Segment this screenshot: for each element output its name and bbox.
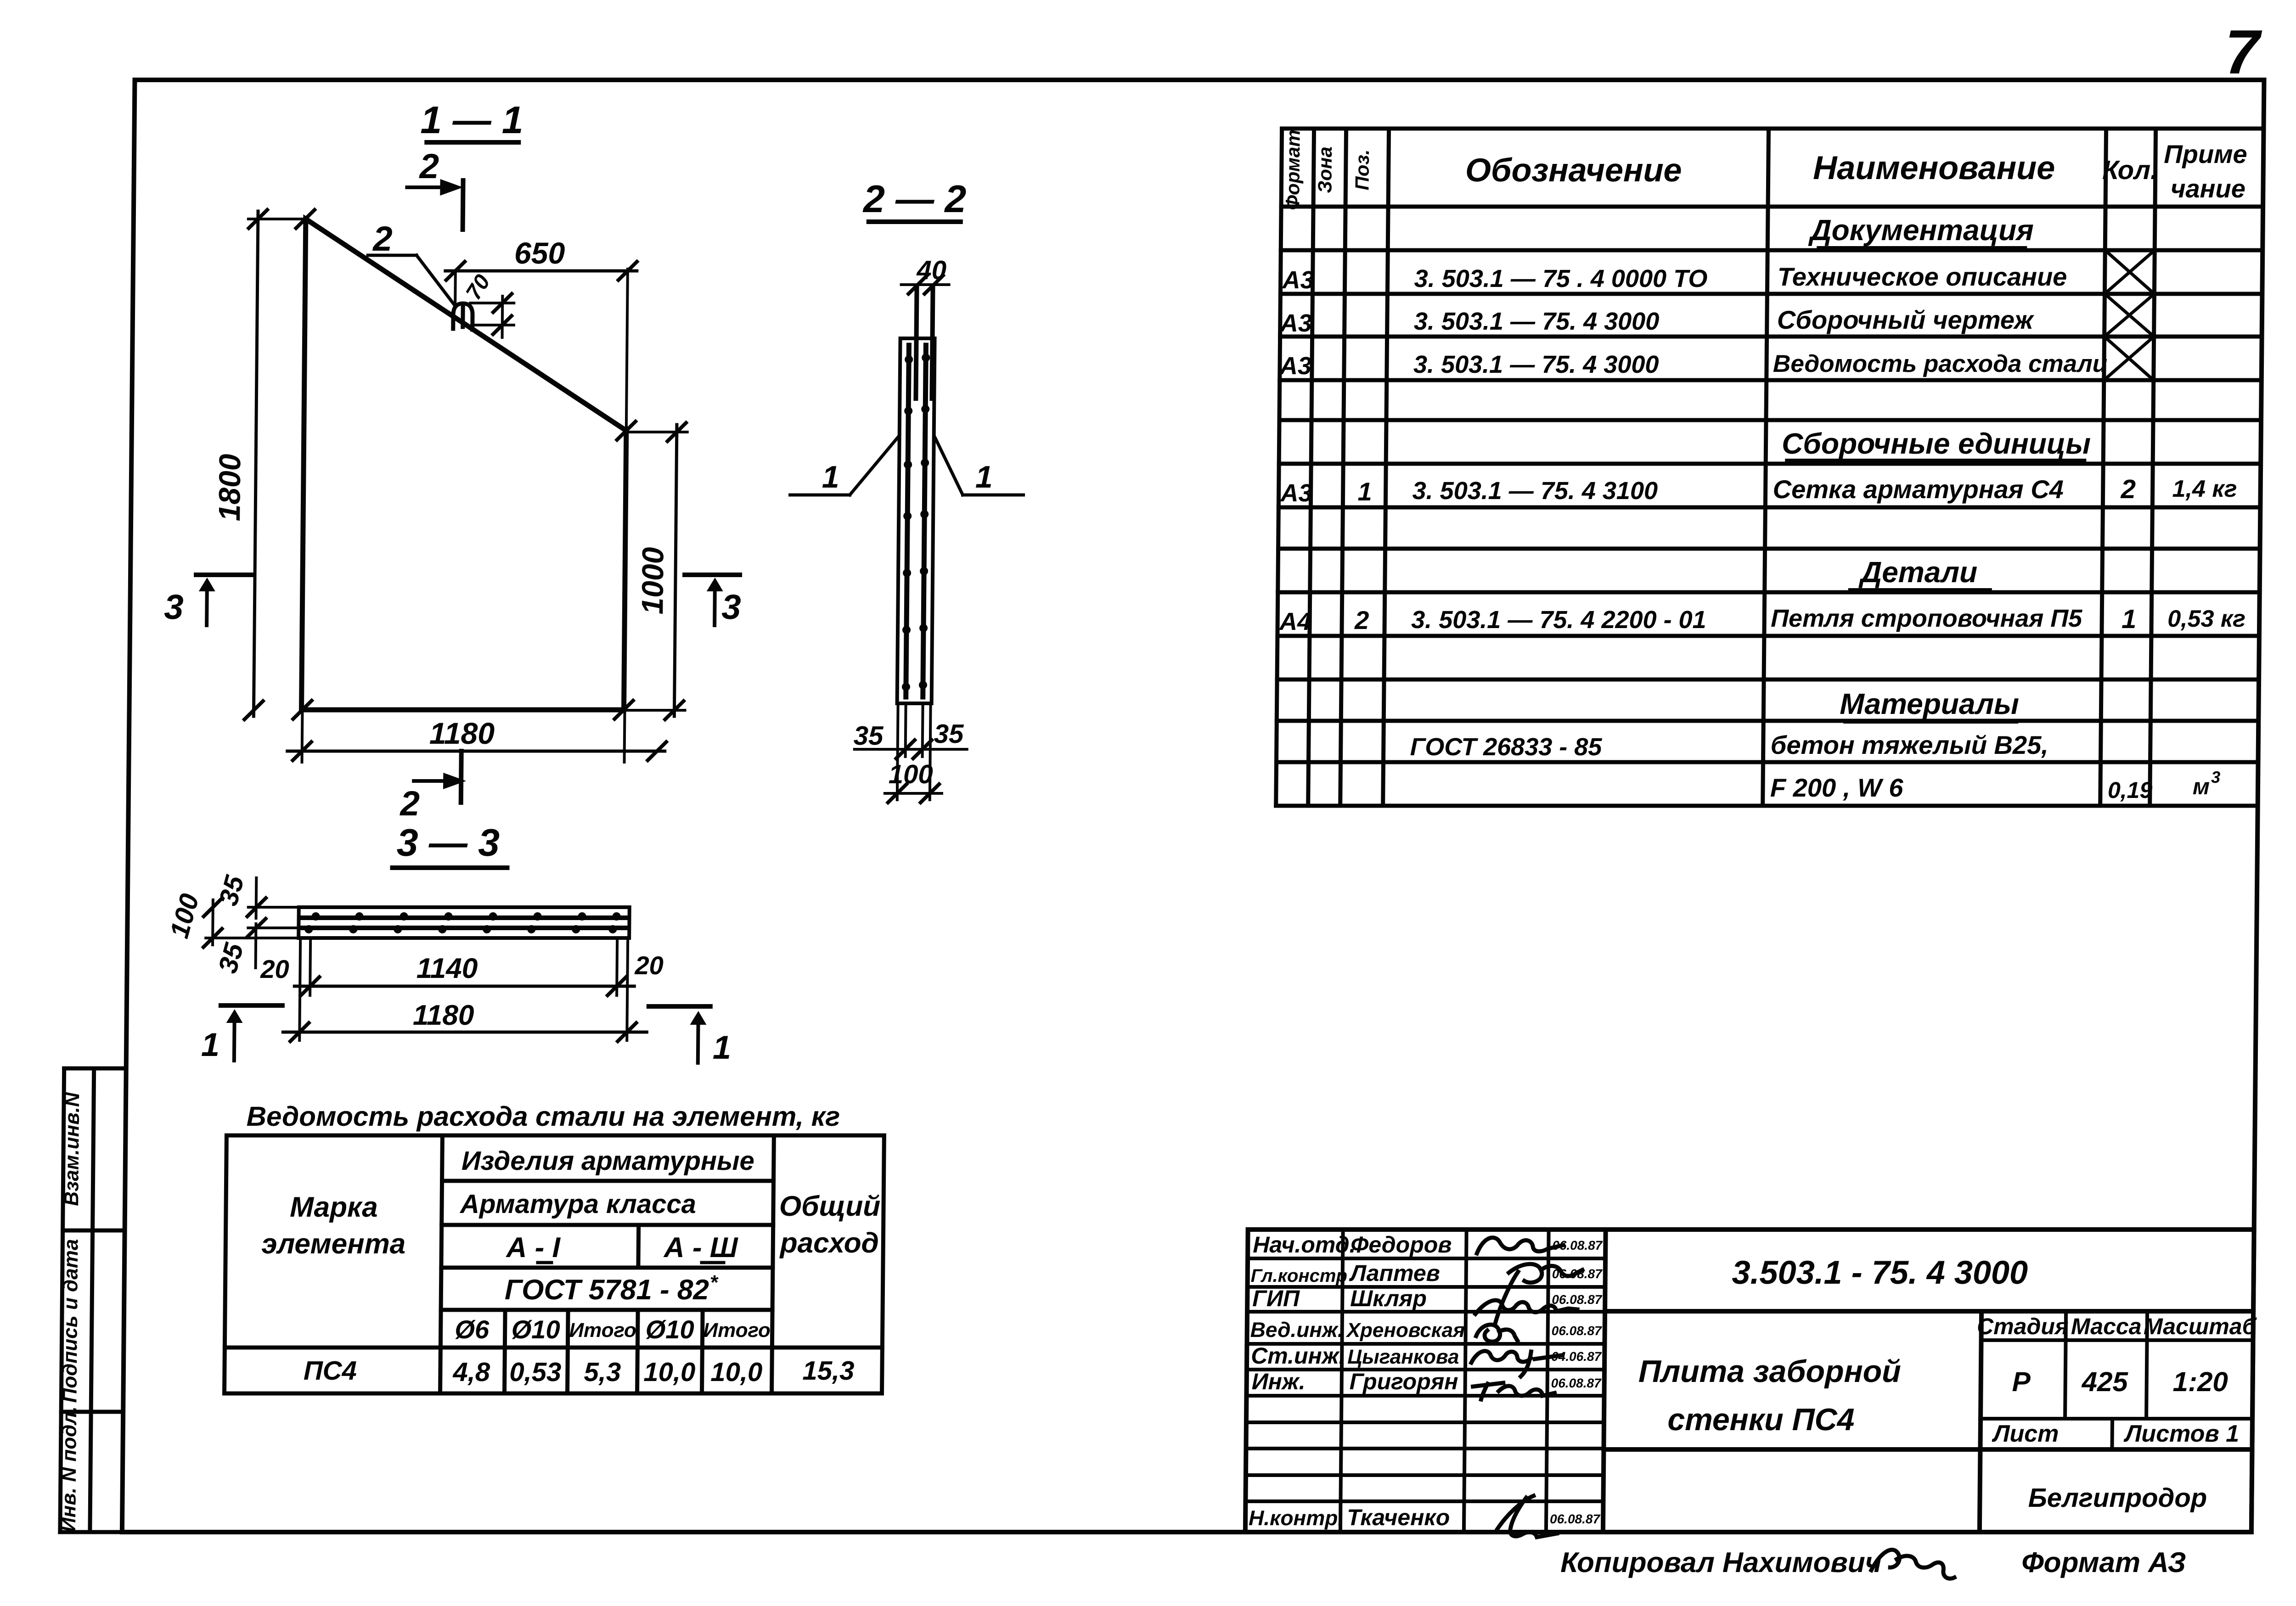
svg-text:1: 1: [822, 460, 839, 494]
svg-text:1,4 кг: 1,4 кг: [2172, 476, 2237, 502]
cross wire dots (3-3): [304, 912, 620, 933]
svg-text:1180: 1180: [413, 1000, 474, 1031]
svg-text:2: 2: [418, 147, 439, 186]
svg-text:1800: 1800: [212, 454, 247, 521]
svg-text:1140: 1140: [416, 953, 478, 984]
svg-text:1180: 1180: [429, 716, 495, 750]
svg-text:Петля строповочная П5: Петля строповочная П5: [1771, 605, 2082, 632]
svg-text:Документация: Документация: [1808, 213, 2034, 247]
corner ticks on trapezoid: [292, 210, 637, 719]
svg-text:Плита заборной: Плита заборной: [1638, 1354, 1901, 1389]
signature Ткаченко: [1497, 1496, 1558, 1537]
signature Шкляр: [1475, 1300, 1577, 1314]
svg-text:Лаптев: Лаптев: [1349, 1260, 1441, 1286]
svg-text:2: 2: [372, 219, 393, 258]
svg-text:Ткаченко: Ткаченко: [1347, 1505, 1450, 1530]
svg-text:Материалы: Материалы: [1840, 687, 2019, 720]
svg-text:Инв. N подл.: Инв. N подл.: [57, 1406, 81, 1532]
svg-text:ГИП: ГИП: [1252, 1286, 1300, 1311]
svg-text:м: м: [2193, 774, 2210, 799]
svg-text:Общий: Общий: [779, 1190, 881, 1222]
svg-text:5,3: 5,3: [584, 1357, 621, 1387]
svg-text:А3: А3: [1279, 479, 1312, 507]
svg-text:А3: А3: [1279, 352, 1312, 380]
svg-text:Сборочный чертеж: Сборочный чертеж: [1777, 305, 2035, 334]
svg-text:Масштаб: Масштаб: [2144, 1314, 2257, 1339]
steel table grid: [225, 1135, 884, 1393]
svg-text:Ведомость расхода стали на: Ведомость расхода стали на элемент, кг: [246, 1101, 840, 1132]
svg-text:бетон тяжелый В25,: бетон тяжелый В25,: [1771, 730, 2049, 759]
svg-text:Обозначение: Обозначение: [1465, 152, 1682, 189]
svg-text:06.08.87: 06.08.87: [1552, 1324, 1603, 1338]
svg-text:Подпись и дата: Подпись и дата: [58, 1239, 82, 1403]
svg-text:2 — 2: 2 — 2: [862, 177, 967, 220]
svg-text:35: 35: [853, 721, 884, 751]
svg-text:06.08.87: 06.08.87: [1550, 1512, 1601, 1526]
svg-text:06.08.87: 06.08.87: [1552, 1292, 1603, 1307]
loop wires protruding at top: [916, 286, 917, 399]
svg-text:3. 503.1 — 75. 4 3000: 3. 503.1 — 75. 4 3000: [1413, 351, 1659, 378]
svg-text:10,0: 10,0: [643, 1357, 695, 1387]
svg-text:Формат АЗ: Формат АЗ: [2021, 1547, 2186, 1578]
rebar mesh bars (2-2): [906, 345, 909, 697]
signature Лаптев: [1496, 1264, 1582, 1322]
svg-text:Сборочные единицы: Сборочные единицы: [1782, 427, 2091, 460]
signature Цыганкова: [1471, 1351, 1561, 1376]
svg-text:Марка: Марка: [290, 1191, 378, 1223]
svg-text:7: 7: [2224, 17, 2262, 87]
svg-text:ПС4: ПС4: [304, 1356, 357, 1386]
svg-text:Детали: Детали: [1858, 556, 1978, 589]
svg-text:100: 100: [889, 759, 933, 789]
svg-text:3.503.1 - 75. 4 3000: 3.503.1 - 75. 4 3000: [1732, 1254, 2028, 1291]
svg-text:3: 3: [164, 588, 184, 627]
svg-text:А3: А3: [1279, 309, 1312, 337]
svg-text:Ø10: Ø10: [646, 1315, 694, 1344]
svg-text:Стадия: Стадия: [1977, 1314, 2069, 1339]
specification table grid: [1276, 129, 2264, 806]
svg-text:Взам.инв.N: Взам.инв.N: [60, 1092, 84, 1206]
svg-text:Лист: Лист: [1991, 1421, 2059, 1447]
svg-text:А4: А4: [1278, 608, 1311, 635]
svg-text:Ведомость расхода стали: Ведомость расхода стали: [1773, 350, 2108, 377]
svg-text:04.06.87: 04.06.87: [1551, 1349, 1602, 1364]
svg-text:Нач.отд.: Нач.отд.: [1253, 1232, 1356, 1258]
svg-text:Приме: Приме: [2164, 140, 2247, 168]
svg-text:15,3: 15,3: [802, 1356, 854, 1386]
svg-text:Наименование: Наименование: [1813, 150, 2055, 186]
svg-text:2: 2: [399, 784, 420, 823]
svg-text:Итого: Итого: [569, 1319, 636, 1342]
svg-text:Копировал Нахимович: Копировал Нахимович: [1560, 1547, 1882, 1578]
svg-text:2: 2: [2120, 474, 2136, 504]
svg-text:20: 20: [260, 955, 289, 983]
svg-text:расход: расход: [779, 1227, 879, 1259]
svg-text:Цыганкова: Цыганкова: [1347, 1346, 1459, 1368]
svg-text:Итого: Итого: [703, 1319, 771, 1342]
svg-text:Масса: Масса: [2071, 1314, 2142, 1339]
svg-text:Шкляр: Шкляр: [1350, 1286, 1427, 1311]
cross wire dots (2-2): [902, 354, 930, 691]
svg-text:1: 1: [975, 460, 993, 494]
svg-text:ГОСТ 5781 - 82: ГОСТ 5781 - 82: [505, 1274, 709, 1306]
svg-text:3. 503.1 — 75. 4 3100: 3. 503.1 — 75. 4 3100: [1412, 477, 1658, 505]
rebar mesh bars (3-3): [303, 915, 627, 920]
svg-text:1:20: 1:20: [2172, 1366, 2228, 1397]
svg-text:стенки ПС4: стенки ПС4: [1667, 1402, 1855, 1437]
svg-text:3. 503.1 — 75. 4 3000: 3. 503.1 — 75. 4 3000: [1414, 308, 1660, 335]
svg-text:1: 1: [2122, 604, 2137, 634]
svg-text:35: 35: [934, 719, 964, 749]
signature Хреновская: [1476, 1325, 1517, 1342]
svg-text:Сетка арматурная С4: Сетка арматурная С4: [1773, 475, 2064, 504]
svg-text:Инж.: Инж.: [1251, 1369, 1305, 1394]
svg-text:Хреновская: Хреновская: [1345, 1319, 1465, 1342]
svg-text:3 — 3: 3 — 3: [397, 821, 500, 864]
svg-text:Кол.: Кол.: [2102, 155, 2158, 185]
svg-text:Н.контр.: Н.контр.: [1249, 1506, 1344, 1530]
svg-text:1: 1: [1357, 477, 1372, 506]
svg-text:650: 650: [514, 236, 565, 270]
svg-text:*: *: [709, 1271, 718, 1294]
svg-text:Ст.инж.: Ст.инж.: [1251, 1343, 1345, 1369]
svg-text:06.08.87: 06.08.87: [1552, 1267, 1603, 1281]
svg-text:Белгипродор: Белгипродор: [2028, 1483, 2207, 1513]
svg-text:1 — 1: 1 — 1: [420, 98, 523, 141]
svg-text:4,8: 4,8: [452, 1357, 490, 1387]
plate outline (section 2-2): [897, 338, 935, 703]
svg-text:Формат: Формат: [1282, 129, 1304, 210]
lifting loop on slope: [453, 303, 473, 330]
svg-text:06.08.87: 06.08.87: [1551, 1376, 1602, 1390]
svg-text:Зона: Зона: [1314, 146, 1336, 193]
svg-text:1000: 1000: [635, 547, 670, 614]
svg-text:Техническое описание: Техническое описание: [1777, 262, 2067, 291]
signature Федоров: [1477, 1238, 1563, 1253]
svg-text:Федоров: Федоров: [1351, 1232, 1452, 1258]
svg-text:F 200 , W 6: F 200 , W 6: [1770, 773, 1904, 802]
signature Нахимович: [1871, 1550, 1955, 1579]
svg-text:06.08.87: 06.08.87: [1552, 1238, 1603, 1252]
svg-text:Р: Р: [2012, 1366, 2031, 1397]
svg-text:чание: чание: [2171, 174, 2246, 203]
plate outline (section 1-1 trapezoid): [302, 219, 628, 710]
svg-text:ГОСТ 26833 - 85: ГОСТ 26833 - 85: [1410, 733, 1603, 761]
svg-text:А - Ш: А - Ш: [663, 1232, 738, 1263]
svg-text:Григорян: Григорян: [1349, 1369, 1458, 1394]
svg-text:Гл.констр: Гл.констр: [1251, 1266, 1348, 1286]
svg-text:Изделия арматурные: Изделия арматурные: [461, 1146, 754, 1176]
svg-text:1: 1: [713, 1029, 732, 1066]
svg-text:элемента: элемента: [261, 1228, 405, 1260]
svg-text:Вед.инж.: Вед.инж.: [1250, 1318, 1344, 1342]
svg-text:3: 3: [2211, 768, 2220, 786]
signature Григорян: [1473, 1383, 1554, 1399]
svg-text:Листов 1: Листов 1: [2123, 1421, 2239, 1447]
svg-text:10,0: 10,0: [710, 1357, 762, 1387]
svg-text:3: 3: [721, 588, 741, 627]
svg-text:2: 2: [1354, 606, 1369, 635]
plate outline (section 3-3): [298, 907, 630, 938]
svg-text:3. 503.1 — 75 . 4 0000 ТО: 3. 503.1 — 75 . 4 0000 ТО: [1414, 265, 1707, 292]
svg-text:Поз.: Поз.: [1351, 150, 1373, 191]
svg-text:425: 425: [2081, 1366, 2128, 1397]
svg-text:3. 503.1 — 75. 4 2200 - 01: 3. 503.1 — 75. 4 2200 - 01: [1411, 606, 1706, 634]
title block grid: [1245, 1230, 2254, 1532]
svg-text:А3: А3: [1281, 266, 1314, 294]
svg-text:Ø6: Ø6: [455, 1315, 490, 1344]
svg-text:0,53 кг: 0,53 кг: [2167, 606, 2245, 632]
svg-text:0,19: 0,19: [2108, 777, 2153, 803]
svg-text:Арматура класса: Арматура класса: [459, 1189, 696, 1219]
left attachment strip (графы): [60, 1068, 126, 1532]
svg-text:А - I: А - I: [505, 1232, 561, 1263]
svg-text:20: 20: [634, 951, 664, 980]
svg-text:0,53: 0,53: [509, 1357, 561, 1387]
svg-text:Ø10: Ø10: [512, 1315, 560, 1344]
svg-text:1: 1: [201, 1027, 220, 1063]
